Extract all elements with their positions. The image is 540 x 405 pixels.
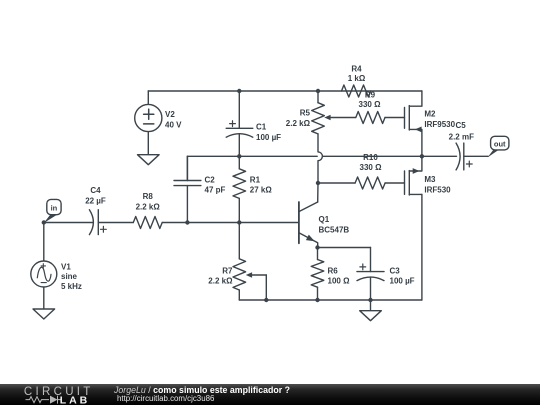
svg-text:R4: R4 — [351, 65, 362, 74]
svg-text:C2: C2 — [205, 176, 216, 185]
wire R5 bottom lead with hop over mid rail — [318, 134, 322, 183]
svg-text:2.2 kΩ: 2.2 kΩ — [208, 277, 233, 286]
svg-text:1 kΩ: 1 kΩ — [348, 74, 366, 83]
wire R7 bottom lead to bottom rail corner — [238, 290, 240, 300]
wire C4 to R8 — [98, 222, 133, 224]
wire R8 to C2 node — [162, 222, 187, 224]
junction R7 wiper on bottom rail — [264, 298, 268, 302]
svg-text:C5: C5 — [456, 121, 467, 130]
resistor R8 — [133, 217, 162, 229]
wire M3 source vertical — [421, 194, 423, 300]
svg-text:40 V: 40 V — [165, 120, 182, 129]
potentiometer R7 — [233, 259, 246, 290]
svg-text:IRF9530: IRF9530 — [424, 120, 455, 129]
wire C2 node to R1 node — [187, 222, 239, 224]
npn transistor Q1 — [298, 202, 300, 243]
svg-text:5 kHz: 5 kHz — [61, 282, 82, 291]
junction C2 bottom — [185, 220, 189, 224]
potentiometer R5 — [312, 103, 325, 134]
wire R1 top lead — [238, 156, 240, 169]
wire C2 bottom lead — [186, 186, 188, 223]
svg-text:IRF530: IRF530 — [424, 185, 451, 194]
ground for V2 — [138, 155, 160, 165]
svg-text:2.2 mF: 2.2 mF — [449, 133, 474, 142]
label C4 polarity — [101, 226, 107, 232]
resistor R10 — [355, 177, 385, 189]
voltage source V2 — [135, 104, 162, 131]
wire V2 top lead — [147, 91, 149, 104]
svg-text:R1: R1 — [250, 176, 261, 185]
wire R10 left lead — [318, 182, 355, 184]
svg-text:sine: sine — [61, 272, 78, 281]
junction R1 bottom — [237, 220, 241, 224]
footer bar — [0, 384, 540, 405]
label C3 polarity — [360, 264, 366, 270]
credit text — [114, 386, 290, 403]
svg-text:R7: R7 — [222, 266, 233, 275]
wire C5 to out flag — [464, 155, 488, 157]
svg-text:C3: C3 — [390, 266, 401, 275]
svg-text:47 pF: 47 pF — [205, 186, 226, 195]
wire R7 wiper down to bottom rail — [252, 274, 267, 276]
wire V2 bottom lead to ground — [147, 132, 149, 155]
resistor R1 — [233, 169, 246, 199]
junction R5/R10/Q1 collector — [316, 181, 320, 185]
wire R1 node to Q1 base — [239, 222, 298, 224]
label C1 polarity — [230, 121, 236, 127]
wire R5 top lead — [317, 91, 319, 103]
svg-text:2.2 kΩ: 2.2 kΩ — [136, 202, 161, 211]
svg-text:M2: M2 — [424, 110, 436, 119]
wire mid rail R1 top to hop — [239, 155, 317, 157]
wire C1 bottom lead — [238, 134, 240, 156]
svg-text:2.2 kΩ: 2.2 kΩ — [286, 119, 311, 128]
resistor R6 — [311, 260, 324, 288]
wire C1 top lead — [238, 91, 240, 128]
svg-text:330 Ω: 330 Ω — [360, 163, 383, 172]
svg-text:M3: M3 — [424, 175, 436, 184]
svg-text:R10: R10 — [363, 153, 378, 162]
resistor R9 — [356, 112, 385, 124]
svg-text:R8: R8 — [143, 192, 154, 201]
node flag out — [488, 149, 501, 158]
ground for C3 node — [360, 311, 382, 321]
wire mid rail hop to M2/M3 drain node — [323, 155, 422, 157]
node dot at in corner — [42, 220, 46, 224]
junction R6 bottom — [315, 298, 319, 302]
wire vertical in node down to V1 — [43, 223, 45, 262]
capacitor C2 plates — [174, 181, 201, 186]
wire V1 bottom to ground — [43, 287, 45, 309]
wire Q1 emitter node down to R6 — [317, 248, 319, 260]
svg-text:330 Ω: 330 Ω — [359, 100, 382, 109]
wire R1 node down to R7 — [238, 223, 240, 259]
wire R5 node down to Q1 collector — [317, 183, 319, 202]
svg-text:100 µF: 100 µF — [390, 277, 415, 286]
junction C1 top — [237, 89, 241, 93]
junction drain node — [420, 154, 424, 158]
svg-text:V2: V2 — [165, 110, 175, 119]
capacitor C3 plates — [357, 271, 384, 273]
wire R9 to M2 gate — [385, 117, 405, 119]
wire R10 to M3 gate — [385, 182, 404, 184]
svg-text:27 kΩ: 27 kΩ — [250, 186, 273, 195]
junction C3 bottom — [368, 298, 372, 302]
CircuitLab logo — [10, 384, 110, 405]
svg-text:R5: R5 — [300, 109, 311, 118]
svg-text:in: in — [51, 203, 58, 212]
wire drain node to C5 — [422, 155, 457, 157]
label C5 polarity — [466, 161, 472, 167]
wire C2 top lead — [186, 156, 188, 180]
node flag in — [44, 215, 57, 223]
capacitor C1 plates — [226, 127, 253, 129]
wire input rail left segment (in node to C4) — [44, 222, 93, 224]
capacitor C5 plates — [456, 143, 460, 170]
pmos M2 — [404, 108, 406, 129]
svg-text:100 µF: 100 µF — [256, 133, 281, 142]
nmos M3 — [404, 171, 406, 194]
svg-text:R6: R6 — [328, 266, 339, 275]
svg-text:BC547B: BC547B — [319, 225, 350, 234]
svg-text:V1: V1 — [61, 263, 71, 272]
wire top rail from V2 to M2 source lead — [148, 90, 422, 92]
voltage source V1 sine — [31, 261, 57, 287]
junction Q1 emitter — [315, 245, 319, 249]
svg-text:C1: C1 — [256, 123, 267, 132]
wire R5 wiper to R9 — [330, 117, 356, 119]
wire C3 node to ground — [370, 300, 372, 311]
wire emitter node to C3 — [318, 247, 371, 249]
ground for V1 — [33, 309, 55, 319]
wire bottom rail — [239, 299, 422, 301]
junction R5 top — [316, 89, 320, 93]
svg-text:LAB: LAB — [60, 394, 91, 405]
svg-text:22 µF: 22 µF — [85, 196, 106, 205]
junction C1 bottom / R1 top — [237, 154, 241, 158]
svg-text:out: out — [494, 140, 506, 149]
svg-text:100 Ω: 100 Ω — [328, 277, 351, 286]
svg-text:Q1: Q1 — [319, 215, 330, 224]
wire C3 bottom lead — [370, 277, 372, 300]
capacitor C4 plates — [89, 210, 93, 235]
wire mid rail C2 corner to R1 top — [187, 155, 239, 157]
svg-text:C4: C4 — [90, 186, 101, 195]
svg-text:R9: R9 — [365, 90, 376, 99]
resistor R4 — [342, 85, 371, 97]
wire R6 bottom lead — [317, 287, 319, 300]
wire R1 bottom lead — [238, 198, 240, 222]
